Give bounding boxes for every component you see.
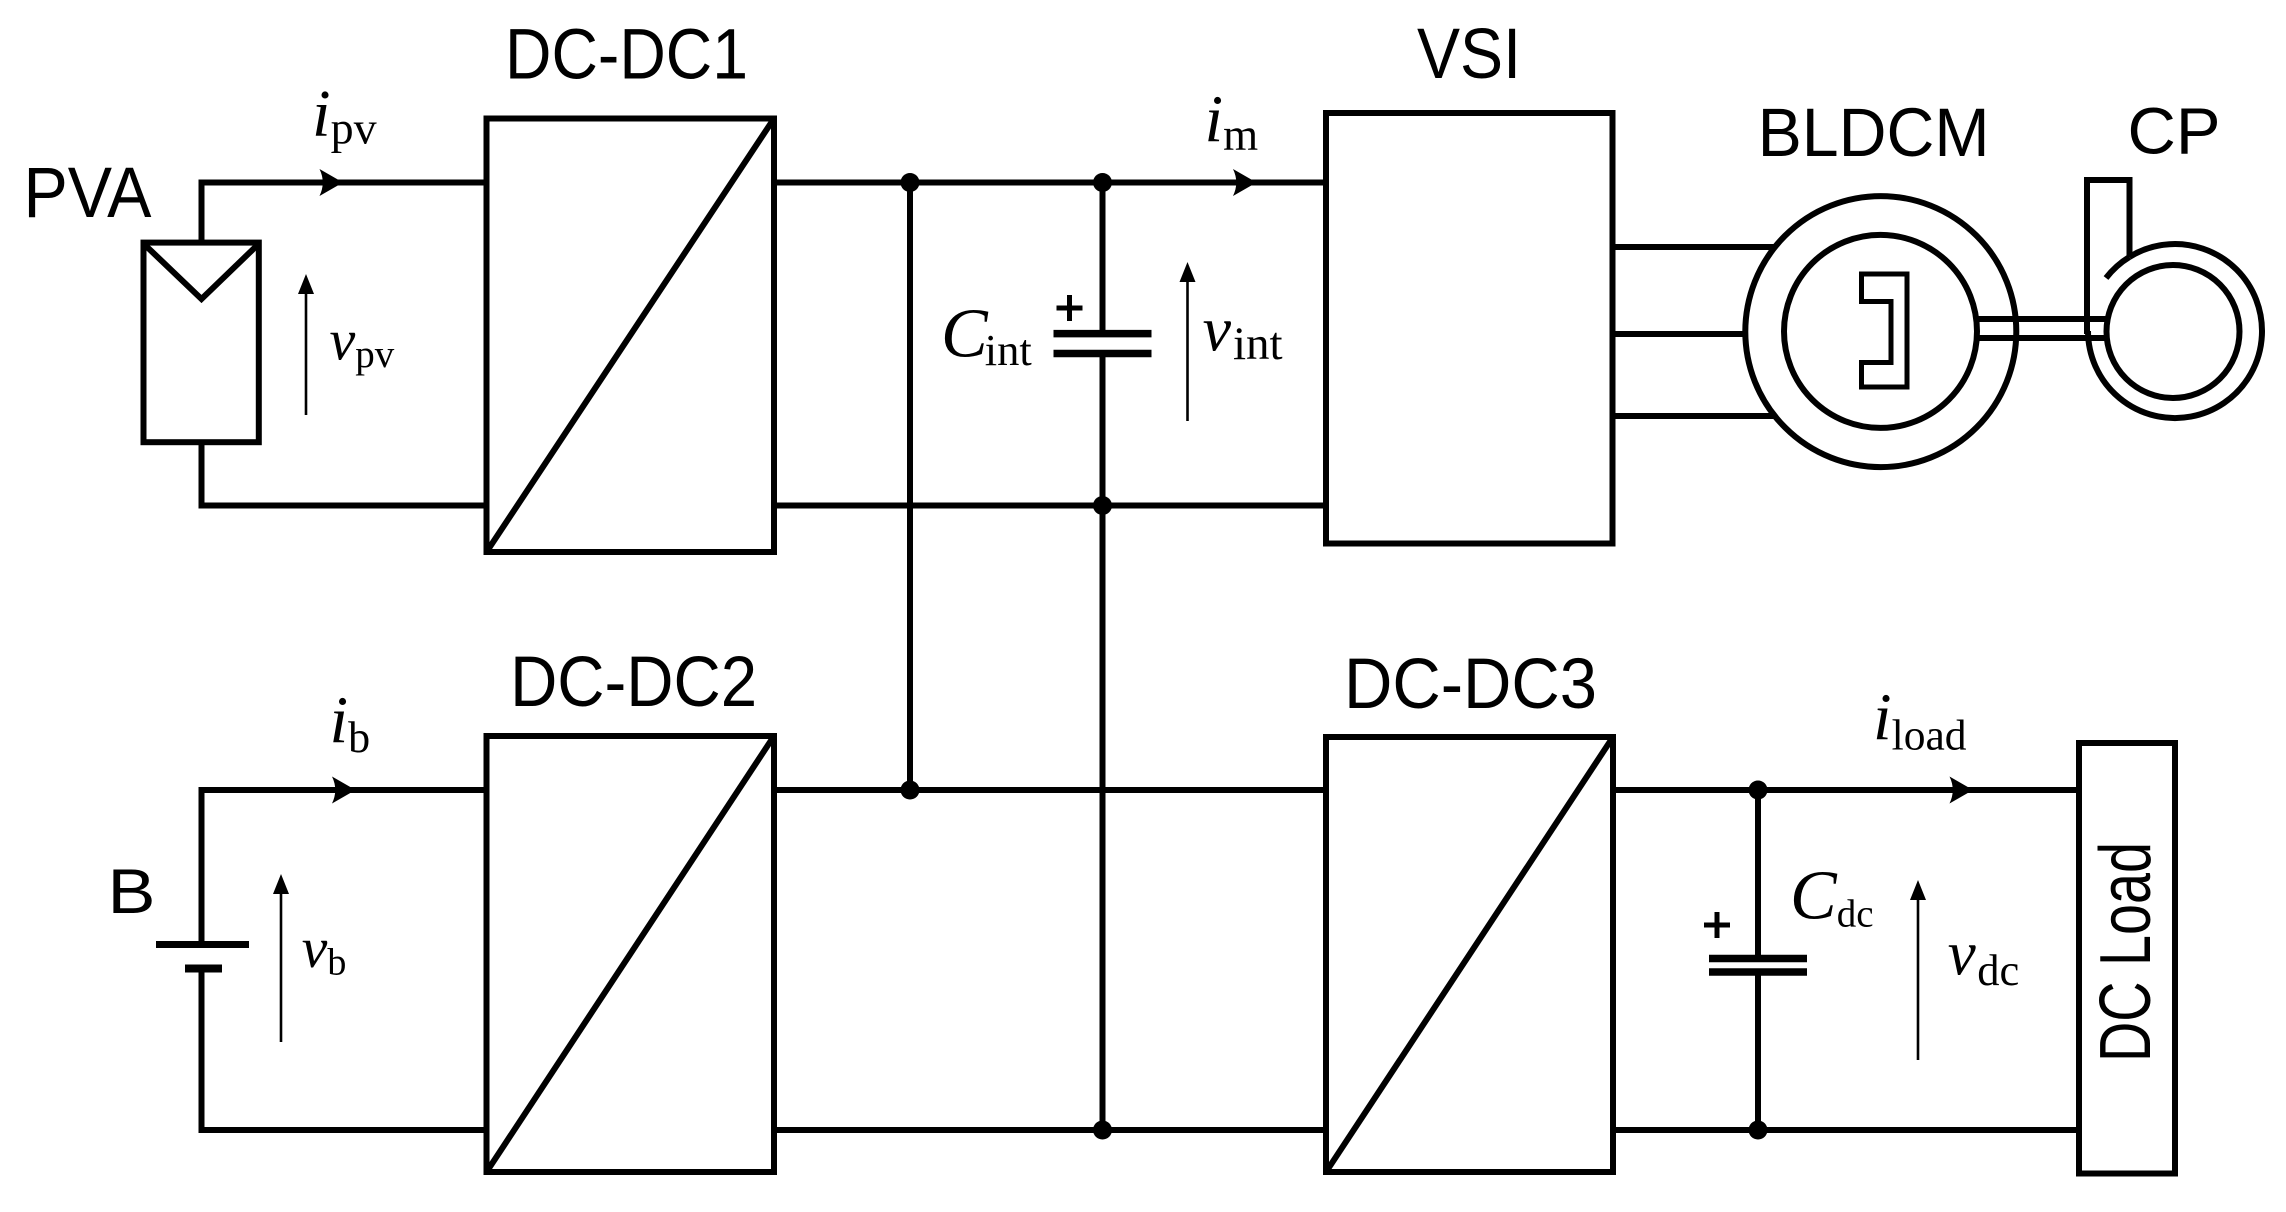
pump CP volute arc stub bbox=[2106, 257, 2130, 278]
converter DC-DC2 bbox=[487, 736, 775, 1172]
node junction DC-DC2 output bbox=[901, 781, 920, 800]
converter DC-DC3 bbox=[1326, 737, 1613, 1172]
plus sign C_int polarity bbox=[1057, 295, 1083, 321]
wire PVA bottom lead bbox=[202, 442, 487, 506]
wire bottom bus DC-DC1 to VSI bbox=[774, 503, 1326, 509]
wire phase A bbox=[1613, 244, 1801, 250]
arrow v_int indicator bbox=[1186, 276, 1189, 421]
wire mid top DC-DC2 to DC-DC3 bbox=[774, 787, 1326, 793]
svg-text:DC-DC1: DC-DC1 bbox=[505, 16, 748, 95]
plus sign C_dc polarity bbox=[1704, 912, 1730, 938]
wire DC-DC3 to DC Load bottom bbox=[1613, 1127, 2079, 1133]
pump CP outer volute arc bbox=[2088, 244, 2262, 418]
node junction top bus left bbox=[901, 173, 920, 192]
wire battery top lead bbox=[202, 790, 487, 944]
pump CP inlet stem bbox=[2084, 177, 2133, 334]
wire top bus DC-DC1 to VSI bbox=[774, 180, 1326, 186]
svg-text:VSI: VSI bbox=[1417, 15, 1521, 94]
wire phase C bbox=[1613, 413, 1801, 419]
wire vertical link DC-DC2 output bbox=[907, 183, 913, 791]
node junction top bus right bbox=[1093, 173, 1112, 192]
svg-text:DC Load: DC Load bbox=[2086, 842, 2166, 1062]
node junction bottom rail bbox=[1093, 1121, 1112, 1140]
wire Cdc bottom lead bbox=[1755, 975, 1761, 1130]
arrow v_pv indicator bbox=[305, 288, 308, 415]
svg-text:BLDCM: BLDCM bbox=[1758, 94, 1990, 171]
shaft coupling bottom line bbox=[1976, 335, 2108, 341]
svg-text:PVA: PVA bbox=[24, 154, 153, 233]
arrow i_m bbox=[1233, 169, 1257, 196]
node junction Cdc bottom bbox=[1749, 1121, 1768, 1140]
wire capacitor Cint top lead bbox=[1100, 183, 1106, 331]
node junction bottom bus bbox=[1093, 496, 1112, 515]
capacitor C_int bbox=[1054, 334, 1152, 354]
solar panel PVA bbox=[144, 243, 259, 443]
svg-text:DC-DC3: DC-DC3 bbox=[1344, 645, 1597, 724]
capacitor C_dc bbox=[1709, 959, 1807, 973]
motor BLDCM stator circle bbox=[1745, 196, 2016, 467]
wire phase B bbox=[1613, 331, 1781, 337]
wire battery bottom lead bbox=[202, 968, 487, 1130]
arrow i_load bbox=[1950, 777, 1974, 804]
arrow i_pv bbox=[320, 169, 344, 196]
svg-text:DC-DC2: DC-DC2 bbox=[510, 643, 757, 722]
battery B short plate bbox=[185, 965, 222, 973]
wire Cdc top lead bbox=[1755, 790, 1761, 956]
wire vertical link Cint bottom to DC bus bbox=[1100, 357, 1106, 1130]
svg-text:CP: CP bbox=[2128, 94, 2221, 168]
arrow i_b bbox=[332, 777, 356, 804]
arrow v_b indicator bbox=[280, 888, 283, 1042]
arrow v_dc indicator bbox=[1917, 894, 1920, 1060]
load block DC Load bbox=[2079, 743, 2175, 1174]
motor BLDCM rotor bracket bbox=[1862, 274, 1908, 387]
converter DC-DC1 bbox=[487, 119, 775, 553]
svg-text:B: B bbox=[108, 857, 156, 927]
wire PVA top lead bbox=[202, 183, 487, 243]
battery B long plate bbox=[156, 941, 249, 948]
node junction Cdc top bbox=[1749, 781, 1768, 800]
motor BLDCM rotor circle bbox=[1784, 235, 1977, 428]
wire mid bottom DC-DC2 to DC-DC3 bbox=[774, 1127, 1326, 1133]
shaft coupling top line bbox=[1976, 316, 2108, 322]
wire DC-DC3 to DC Load top bbox=[1613, 787, 2079, 793]
inverter VSI bbox=[1326, 113, 1613, 544]
pump CP impeller circle bbox=[2107, 265, 2240, 398]
